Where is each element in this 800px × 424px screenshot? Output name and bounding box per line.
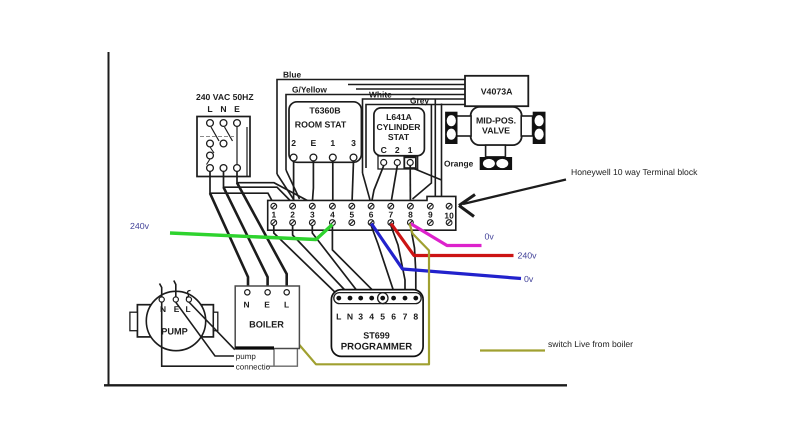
svg-text:C: C (381, 145, 387, 155)
svg-text:G/Yellow: G/Yellow (292, 85, 327, 95)
boiler box (235, 286, 299, 349)
svg-text:3: 3 (358, 312, 363, 322)
svg-text:T6360B: T6360B (309, 106, 340, 116)
svg-text:6: 6 (369, 210, 374, 220)
annotation arrow to terminal block (459, 180, 566, 217)
svg-text:7: 7 (388, 210, 393, 220)
pump left flange (130, 305, 151, 337)
wire room stat to valve upper (348, 84, 465, 86)
cable sheath Grey (366, 96, 465, 200)
svg-text:2: 2 (291, 138, 296, 148)
wire mains N to boiler E (224, 187, 268, 290)
valve right pipe stub (521, 116, 532, 136)
room stat terminals (290, 154, 357, 161)
wire room stat E to terminal 3 (312, 161, 313, 203)
svg-text:4: 4 (330, 210, 335, 220)
wire room stat to valve lower (356, 88, 465, 90)
wire terminal 2 to programmer N (293, 226, 350, 296)
terminal block numbers (271, 210, 454, 221)
svg-text:E: E (234, 104, 240, 114)
svg-text:L: L (185, 304, 190, 314)
svg-text:STAT: STAT (388, 132, 410, 142)
wire terminal 1 to programmer L (274, 226, 339, 296)
wire room stat 3 to terminal 5 (352, 161, 354, 203)
svg-text:N: N (220, 104, 226, 114)
wire mains N to terminal 2 (224, 172, 293, 204)
svg-text:Blue: Blue (283, 70, 301, 80)
wire terminal 4 to programmer 4 (332, 226, 371, 297)
svg-text:White: White (369, 90, 392, 100)
wire cylinder stat 2 to terminal 7 (391, 166, 398, 204)
wire terminal 3 to programmer 3 (312, 226, 360, 296)
wire room stat 1 to terminal 4 (332, 161, 334, 203)
svg-text:9: 9 (428, 210, 433, 220)
wire mains L to boiler N (210, 193, 248, 290)
red wire terminal 7 240v (391, 224, 514, 256)
cable sheath G/Yellow (286, 85, 465, 200)
svg-text:MID-POS.: MID-POS. (476, 116, 516, 126)
green wire 240v to terminal 4 (170, 225, 332, 240)
boiler terminals (243, 290, 289, 310)
svg-text:240 VAC 50HZ: 240 VAC 50HZ (196, 92, 254, 102)
mains supply label 240 VAC 50HZ (196, 92, 254, 114)
svg-text:4: 4 (369, 312, 374, 322)
svg-text:10: 10 (444, 211, 454, 221)
pump N stub (160, 284, 162, 297)
wire terminal 7 to programmer 7 (391, 226, 405, 297)
wire connection label to boiler (267, 349, 297, 367)
wire terminal 8 to programmer 8 (410, 226, 415, 297)
svg-text:8: 8 (408, 210, 413, 220)
svg-text:ROOM STAT: ROOM STAT (295, 120, 347, 130)
olive legend wire (480, 349, 545, 351)
pump terminals (159, 297, 191, 314)
magenta wire terminal 8 0v (410, 224, 481, 246)
valve bottom pipe stub (486, 145, 506, 157)
svg-text:N: N (160, 304, 166, 314)
svg-text:3: 3 (351, 138, 356, 148)
wire cylinder stat 1 to orange drop (413, 104, 442, 197)
room stat T6360B (289, 102, 361, 163)
svg-text:7: 7 (403, 312, 408, 322)
valve bottom flange (480, 158, 511, 170)
label 240v left (130, 221, 150, 231)
svg-text:1: 1 (271, 210, 276, 220)
svg-text:switch Live from boiler: switch Live from boiler (548, 339, 633, 349)
svg-text:N: N (347, 312, 353, 322)
wire pump N to connection label (162, 302, 234, 366)
valve head V4073A (465, 76, 528, 106)
label Honeywell 10 way Terminal block (571, 167, 698, 177)
svg-text:5: 5 (349, 210, 354, 220)
svg-text:L: L (336, 312, 341, 322)
svg-text:0v: 0v (524, 274, 534, 284)
olive wire terminal 8 to boiler (297, 224, 429, 365)
svg-text:L: L (207, 104, 212, 114)
svg-text:V4073A: V4073A (481, 87, 513, 97)
left frame line (108, 52, 110, 386)
wire cylinder stat 1 to terminal 8 (409, 166, 411, 204)
svg-text:ST699: ST699 (363, 331, 390, 341)
mains terminals N column (220, 120, 227, 172)
cable sheath White (363, 90, 466, 201)
wire pump E to pump label (176, 302, 234, 356)
svg-text:0v: 0v (485, 232, 495, 242)
label switch Live from boiler (548, 339, 633, 349)
svg-text:PROGRAMMER: PROGRAMMER (341, 342, 412, 353)
svg-text:2: 2 (395, 145, 400, 155)
mains supply box (197, 117, 250, 177)
mains terminals E column (234, 120, 241, 172)
terminal block top row terminals (271, 203, 452, 209)
pump body (146, 291, 205, 350)
cylinder stat L641A (374, 108, 425, 156)
wire cylinder stat C to terminal 6 (371, 166, 383, 204)
svg-text:CYLINDER: CYLINDER (377, 122, 422, 132)
valve left flange (446, 112, 457, 143)
mains switch contacts (200, 127, 234, 165)
svg-text:pump: pump (236, 352, 257, 361)
label Orange (444, 159, 474, 169)
svg-text:5: 5 (380, 312, 385, 322)
wire mains E to terminal 3 (237, 172, 312, 204)
pump L squiggle (186, 291, 191, 298)
svg-text:E: E (311, 138, 317, 148)
label 0v magenta (485, 232, 495, 242)
svg-text:L641A: L641A (386, 112, 412, 122)
programmer terminal slots (334, 293, 421, 304)
svg-text:8: 8 (413, 312, 418, 322)
label 240v red (518, 251, 538, 261)
wire pump L to boiler corner (189, 302, 235, 350)
svg-text:2: 2 (290, 210, 295, 220)
svg-text:BOILER: BOILER (249, 320, 284, 330)
programmer box ST699 (331, 290, 423, 357)
wire room stat 2 to terminal 2 (293, 161, 295, 203)
svg-text:N: N (243, 300, 249, 310)
bottom frame line (104, 384, 567, 386)
pump right flange (202, 305, 218, 337)
blue wire terminal 6 0v (371, 224, 521, 279)
svg-text:240v: 240v (518, 251, 538, 261)
cable sheath Blue (277, 70, 465, 201)
svg-text:1: 1 (330, 138, 335, 148)
svg-text:Honeywell 10 way Terminal bloc: Honeywell 10 way Terminal block (571, 167, 698, 177)
valve right flange (533, 112, 545, 143)
svg-text:240v: 240v (130, 221, 150, 231)
svg-text:connectio: connectio (236, 363, 271, 372)
mains terminals L column (207, 120, 214, 172)
valve left pipe stub (456, 116, 471, 136)
svg-text:1: 1 (408, 145, 413, 155)
pump E stub (174, 281, 176, 297)
terminal block outline (268, 196, 456, 230)
svg-text:Orange: Orange (444, 159, 474, 169)
terminal block bottom row terminals (271, 220, 452, 226)
programmer pin labels (336, 312, 418, 322)
svg-text:PUMP: PUMP (161, 327, 188, 337)
wire terminal 6 to programmer 6 (371, 226, 394, 297)
svg-text:VALVE: VALVE (482, 126, 510, 136)
svg-text:3: 3 (310, 210, 315, 220)
wire mains E to boiler L (237, 183, 287, 290)
svg-text:6: 6 (391, 312, 396, 322)
label pump connectio (236, 352, 271, 372)
mid position valve body (471, 107, 522, 145)
svg-text:L: L (284, 300, 289, 310)
wire mains L to terminal 1 (210, 172, 274, 205)
svg-text:E: E (264, 300, 270, 310)
cylinder stat terminal strip (378, 156, 418, 169)
label 0v blue (524, 274, 534, 284)
programmer terminal pins (336, 296, 418, 301)
